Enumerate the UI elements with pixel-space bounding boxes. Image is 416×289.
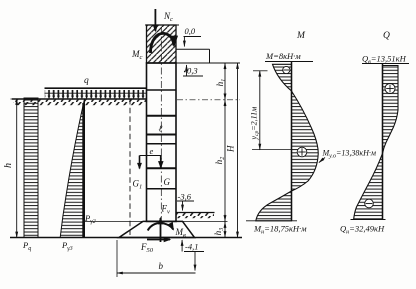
svg-text:Pγ3: Pγ3 xyxy=(61,240,73,252)
level 0,0 line xyxy=(176,48,210,50)
svg-text:Mн=18,75кН·м: Mн=18,75кН·м xyxy=(253,224,307,236)
force Nc arrow xyxy=(154,9,156,31)
svg-text:ℓ: ℓ xyxy=(159,124,163,134)
svg-text:q: q xyxy=(84,76,89,86)
svg-text:0,0: 0,0 xyxy=(185,26,196,36)
svg-text:F50: F50 xyxy=(140,242,154,254)
moment Mv arc xyxy=(148,223,174,231)
svg-text:G1: G1 xyxy=(133,179,143,191)
svg-text:0,3: 0,3 xyxy=(187,66,198,76)
force G arrow xyxy=(160,155,162,168)
dashed back-face line xyxy=(129,99,131,237)
M main positive lobe xyxy=(292,91,319,191)
arrow 0,0 xyxy=(183,37,185,47)
right ground hatch xyxy=(177,213,215,218)
M bottom negative lobe xyxy=(256,191,292,221)
wall block divider 4 xyxy=(147,143,177,145)
arrows at 221.4 pair xyxy=(224,214,226,221)
footing trapezoid xyxy=(119,221,195,237)
svg-text:M: M xyxy=(296,31,306,41)
ycp dimension xyxy=(259,71,261,150)
pressure diagram Pq rectangle xyxy=(24,98,38,238)
ycp bottom tick xyxy=(252,149,292,151)
Q bottom negative lobe xyxy=(354,154,383,220)
Q axis xyxy=(382,64,384,220)
triangle right edge arrows xyxy=(82,103,84,237)
pressure triangle P&#947;3 xyxy=(60,99,84,238)
Q top positive lobe xyxy=(383,66,399,154)
M top negative lobe xyxy=(273,64,292,91)
arrows at 99.5 pair xyxy=(224,92,226,99)
underline 0,0 xyxy=(184,36,202,38)
arrow 4,1 up xyxy=(181,240,183,252)
ground line left xyxy=(12,98,147,100)
svg-text:Q: Q xyxy=(383,31,390,41)
svg-text:h3: h3 xyxy=(214,228,225,236)
svg-text:Nc: Nc xyxy=(163,11,173,23)
wall axis dash-dot xyxy=(160,27,162,220)
svg-text:-3,6: -3,6 xyxy=(178,192,192,202)
wall block divider 5 xyxy=(147,167,177,169)
svg-text:Pγ2: Pγ2 xyxy=(84,213,96,225)
M label underline xyxy=(265,61,313,63)
svg-text:h2: h2 xyxy=(215,157,226,165)
force Fsp arrow xyxy=(147,239,170,241)
dimension h line xyxy=(16,99,18,238)
svg-text:G: G xyxy=(164,177,171,187)
plus circle M xyxy=(297,147,307,157)
distributed load q top bar xyxy=(45,87,147,89)
ycp top tick xyxy=(253,70,268,72)
right ground -3,6 line xyxy=(176,212,215,214)
dimension h bottom tick xyxy=(11,237,24,239)
force Fv arrow xyxy=(160,218,162,242)
svg-text:h1: h1 xyxy=(216,79,227,87)
underline 4,1 xyxy=(184,251,204,253)
wall block divider 1 xyxy=(147,89,177,91)
b dimension line xyxy=(117,272,196,274)
M baseline xyxy=(291,62,293,222)
underline 3,6 xyxy=(177,200,194,202)
svg-text:Mc: Mc xyxy=(131,49,143,61)
svg-text:h: h xyxy=(3,163,14,168)
dimension h top tick xyxy=(11,98,24,100)
svg-text:e: e xyxy=(150,146,154,156)
M bottom edge xyxy=(246,220,297,222)
minus circle xyxy=(283,66,290,73)
level 0,3 line xyxy=(147,62,241,64)
minus circle Q xyxy=(365,199,374,208)
dimension column h1 h2 h3 xyxy=(224,63,226,238)
cap top line xyxy=(145,24,179,26)
b extension line xyxy=(116,240,118,277)
arrow 0,3 xyxy=(186,65,188,76)
force G1 arrow xyxy=(139,156,141,169)
svg-text:Pq: Pq xyxy=(22,240,31,252)
svg-text:M=8кН·м: M=8кН·м xyxy=(265,51,301,61)
step vertical xyxy=(209,49,211,63)
leader down to b line xyxy=(194,252,196,271)
Q bottom edge xyxy=(351,219,386,221)
svg-text:-4,1: -4,1 xyxy=(185,242,198,252)
dash-dot ground level right xyxy=(177,99,240,101)
wall stem xyxy=(147,63,177,221)
Q label underline xyxy=(362,63,409,65)
svg-text:Qн=32,49кН: Qн=32,49кН xyxy=(340,224,385,236)
svg-text:b: b xyxy=(159,261,164,271)
wall block divider 2 xyxy=(147,115,177,117)
distributed load q arrows comb xyxy=(45,89,147,99)
arrows at 63 xyxy=(224,63,226,70)
eccentricity dim line e xyxy=(140,155,162,157)
level line P&#947;2 / footing top xyxy=(85,220,228,222)
dot before 0,3 xyxy=(184,71,186,73)
svg-text:Fv: Fv xyxy=(161,204,171,216)
arrow at 237.5 xyxy=(224,230,226,237)
moment Mc arc xyxy=(151,33,174,53)
arrow 3,6 down xyxy=(182,201,184,211)
svg-text:уср=2,11м: уср=2,11м xyxy=(250,107,261,141)
svg-text:H: H xyxy=(226,145,236,153)
plus circle Q xyxy=(385,84,395,94)
ground hatch left xyxy=(13,100,146,106)
wall block divider 6 xyxy=(147,188,177,190)
column cap hatched xyxy=(147,25,177,63)
distributed load q second bar xyxy=(45,92,147,94)
underline 0,3 xyxy=(183,75,203,77)
svg-text:Mу.о=13,38кН·м: Mу.о=13,38кН·м xyxy=(322,149,377,160)
wall block divider 3 xyxy=(147,134,177,136)
dimension H xyxy=(237,63,239,238)
base line xyxy=(10,237,242,239)
